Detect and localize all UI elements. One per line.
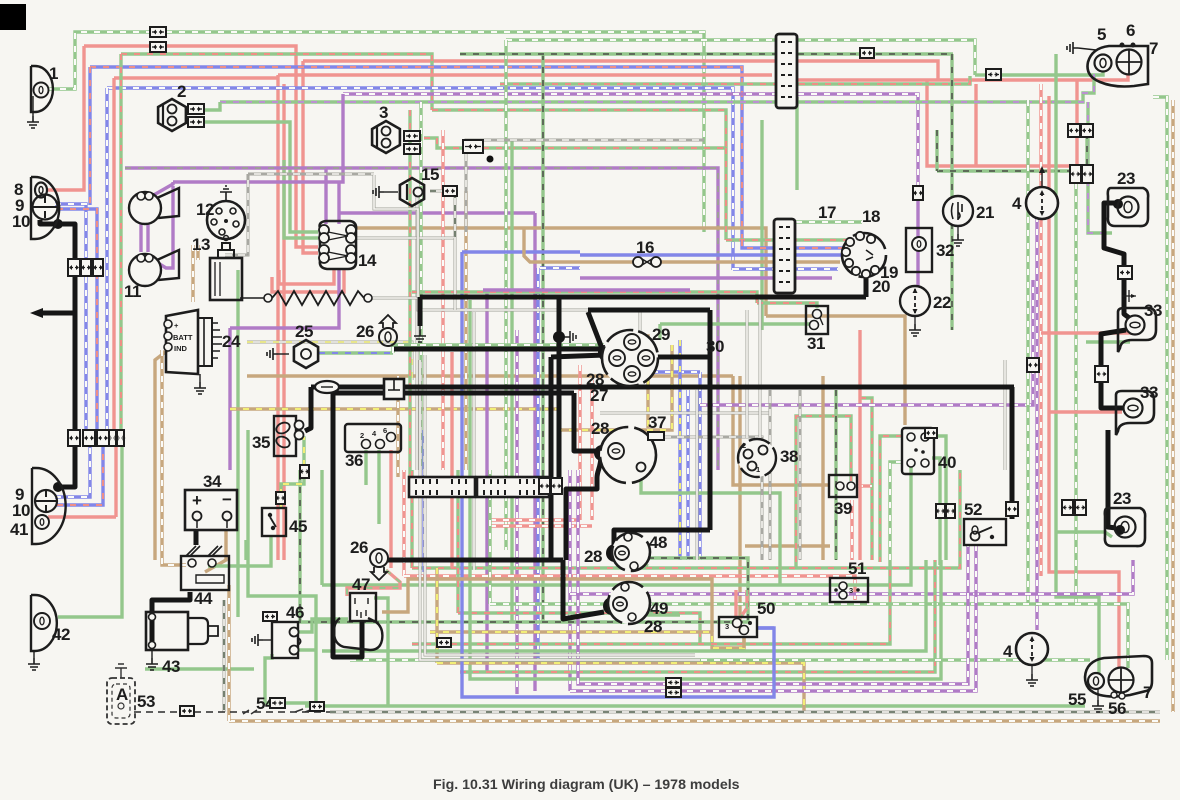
connector black left lamp bbox=[68, 259, 80, 276]
svg-text:29: 29 bbox=[652, 325, 670, 344]
wire green y324 31 bbox=[660, 322, 811, 325]
connector blue left a bbox=[81, 259, 91, 276]
svg-text:11: 11 bbox=[124, 282, 141, 301]
svg-text:30: 30 bbox=[706, 337, 724, 356]
switch 47 bbox=[350, 593, 376, 621]
flasher unit 3 bbox=[372, 121, 400, 153]
wire salmon v860 bbox=[858, 330, 861, 560]
wire green/white far right bbox=[1153, 97, 1167, 660]
wire green/yellow 35 drop bbox=[281, 438, 304, 508]
wire blue/white v688 bbox=[686, 390, 689, 560]
bulb 26b bbox=[370, 549, 388, 567]
wire purple v487 bbox=[485, 292, 488, 672]
svg-text:56: 56 bbox=[1108, 699, 1126, 718]
wire white console frame b bbox=[466, 140, 704, 232]
wire green 39 riser bbox=[796, 416, 851, 568]
wire tan y262 fuse2 bbox=[660, 260, 840, 263]
black wire H387 bbox=[311, 385, 1014, 390]
connector green/dark 862 bbox=[860, 48, 874, 58]
wire green/white y604b bbox=[490, 604, 1128, 668]
wire white v1005 frame bbox=[1004, 360, 1007, 470]
wire red y84 link bbox=[927, 80, 1077, 166]
battery 34 bbox=[185, 490, 237, 530]
wire green/red y644 bbox=[412, 568, 890, 644]
junction node J4 bbox=[594, 445, 610, 461]
black wire 23a lamp bbox=[1104, 203, 1132, 320]
svg-text:45: 45 bbox=[289, 517, 307, 536]
svg-text:39: 39 bbox=[834, 499, 852, 518]
wire purple/gray y168 bbox=[125, 168, 718, 278]
black wire 23b chain bbox=[1108, 430, 1116, 528]
wire tan 39 wire bbox=[745, 544, 830, 547]
wire green/red y568b bbox=[412, 470, 960, 568]
wire white zigzag right bbox=[769, 390, 772, 560]
connector black 23 chain c bbox=[1062, 500, 1073, 515]
wire green/red flasher3 bbox=[424, 138, 483, 148]
wire white resistor lead bbox=[364, 298, 540, 310]
wire red/green 47 feed bbox=[347, 570, 400, 596]
wire purple y278 bbox=[580, 276, 832, 279]
svg-text:33: 33 bbox=[1140, 383, 1158, 402]
wire green 23b bbox=[1056, 532, 1112, 537]
wire purple y213 bbox=[339, 211, 535, 214]
switch 45 bbox=[262, 508, 286, 536]
connector black oval bbox=[315, 381, 339, 393]
wire red/white 39b bbox=[857, 484, 872, 487]
connector pair 1071 bbox=[1070, 165, 1081, 183]
wire red y80 left bbox=[797, 78, 927, 81]
black wire V547 bbox=[549, 357, 554, 560]
wire green/red y148 bus bbox=[483, 146, 726, 149]
sender 4b bbox=[1016, 633, 1048, 665]
wire green flasher2 wire2 bbox=[204, 122, 290, 160]
svg-text:2: 2 bbox=[360, 431, 364, 440]
svg-text:28: 28 bbox=[584, 547, 602, 566]
wire tan v823 bbox=[821, 376, 824, 560]
wire green/dark y622 bbox=[300, 470, 748, 622]
wire white y413 bbox=[600, 412, 770, 415]
wire purple/white y691 bbox=[570, 545, 976, 691]
wire tan/yellow v430 bbox=[435, 568, 438, 663]
wire blue/white lamp910 a bbox=[55, 446, 90, 497]
svg-text:14: 14 bbox=[358, 251, 377, 270]
svg-text:4: 4 bbox=[1012, 194, 1022, 213]
wire tan 38 bbox=[733, 376, 829, 485]
svg-text:48: 48 bbox=[649, 533, 667, 552]
black wire 559 drop bbox=[557, 297, 562, 478]
connector purple/white 1033 bbox=[1027, 358, 1039, 372]
svg-text:42: 42 bbox=[52, 625, 70, 644]
wire white loop distributor bbox=[225, 174, 248, 255]
svg-text:31: 31 bbox=[807, 334, 825, 353]
svg-text:18: 18 bbox=[862, 207, 880, 226]
wire red top bus y61 bbox=[303, 61, 938, 80]
wire green/white 975 branch bbox=[506, 40, 975, 75]
wire green/white cluster bbox=[420, 343, 604, 346]
svg-text:−: − bbox=[222, 490, 232, 509]
wire white 14 lead2 bbox=[454, 238, 457, 310]
wire green v238 bbox=[236, 270, 239, 617]
wire blue y252 bbox=[462, 250, 580, 253]
wire purple y213 switch bbox=[324, 168, 327, 224]
connector 15 white bbox=[443, 186, 457, 196]
svg-text:50: 50 bbox=[757, 599, 775, 618]
svg-text:26: 26 bbox=[350, 538, 368, 557]
wire green/red v725 bbox=[724, 148, 727, 240]
black wire 869 stub bbox=[864, 276, 869, 297]
svg-text:44: 44 bbox=[194, 589, 213, 608]
wire white 15 lead bbox=[430, 191, 455, 238]
svg-text:27: 27 bbox=[590, 386, 608, 405]
wire purple/white y594b bbox=[570, 560, 1133, 594]
wire red/white 39 bbox=[850, 500, 853, 560]
wire red/white v443 bbox=[441, 130, 444, 470]
wire tan/yellow y632b bbox=[430, 632, 744, 648]
wire green/white 25 up bbox=[393, 345, 420, 353]
connector green top bbox=[150, 27, 166, 37]
connector blue left b bbox=[93, 259, 103, 276]
wire green 46 bottom bbox=[298, 648, 316, 651]
wire blue v462 bbox=[460, 252, 463, 470]
wire blue/red y248 bbox=[742, 240, 845, 248]
black wire battery neg bbox=[194, 530, 199, 545]
connector pair 40 greens bbox=[936, 504, 945, 518]
speedometer 37 bbox=[600, 427, 656, 483]
wire blue v424 bbox=[422, 430, 425, 572]
wire green/red y568 bbox=[410, 470, 413, 568]
wire red/white y520 bbox=[490, 518, 580, 521]
connector green y706 bbox=[310, 702, 324, 711]
wire purple v535 bbox=[533, 213, 536, 691]
wire white v224 bbox=[223, 600, 226, 712]
svg-text:6: 6 bbox=[1126, 21, 1135, 40]
instrument 29/30 voltage stabiliser bbox=[602, 330, 658, 386]
wire tan coil v198 bbox=[196, 245, 199, 260]
svg-text:24: 24 bbox=[222, 332, 241, 351]
svg-text:47: 47 bbox=[352, 575, 370, 594]
wire white 38 leads bbox=[759, 300, 762, 437]
wire blue/white cluster bbox=[648, 370, 652, 373]
wire green y585 bbox=[320, 470, 323, 585]
wire green/red y290 bbox=[412, 292, 757, 303]
ground near 26a bbox=[419, 326, 421, 330]
wire purple y94 bus bbox=[343, 94, 918, 188]
wire tan v398 bbox=[396, 376, 399, 477]
wire green/red y613 bbox=[456, 470, 459, 613]
wire tan coil v193 bbox=[191, 245, 194, 302]
wire green/white v1033 bbox=[1026, 100, 1029, 604]
black wire 33a loop bbox=[1101, 330, 1126, 408]
wire tan 50 out bbox=[742, 636, 745, 648]
wire green y679 bbox=[470, 300, 941, 679]
black wire lamp8910 down bbox=[40, 220, 75, 487]
switch 36 bbox=[345, 424, 401, 452]
wire white y174 bbox=[248, 173, 374, 176]
lamp 9/10/41 bbox=[32, 468, 66, 544]
wire green/red left v121 bbox=[119, 54, 122, 446]
wire red v278 bbox=[276, 75, 279, 560]
wire green y324 31b bbox=[658, 324, 661, 340]
wire green y651 bbox=[322, 560, 926, 651]
wire white big frame2 bbox=[425, 355, 695, 655]
switch 25 bbox=[294, 340, 318, 368]
svg-text:3: 3 bbox=[379, 103, 388, 122]
connector block 17/18 bbox=[774, 219, 795, 293]
wire white v747 bbox=[746, 310, 749, 438]
wire purple/white v1033b bbox=[1031, 280, 1034, 358]
wire green/white v1076 bbox=[1074, 183, 1077, 604]
wire purple v918 bbox=[916, 196, 919, 286]
wire green headlamp 5 feed2 bbox=[1000, 62, 1103, 75]
switch 15 bbox=[400, 178, 424, 206]
wire green flasher2 wire bbox=[204, 102, 220, 110]
wire red 14 feed2 bbox=[303, 61, 318, 253]
wire red top bus y46c bbox=[166, 46, 318, 247]
black wire arrow left bbox=[40, 311, 75, 316]
junction node J8 bbox=[53, 482, 63, 492]
wire green/red y672 bbox=[460, 560, 935, 672]
wire purple horn drop2 bbox=[146, 198, 149, 252]
distributor 12 bbox=[207, 201, 245, 239]
junction node J9 bbox=[1113, 199, 1123, 209]
black wire H309 bbox=[588, 308, 710, 313]
wire white v417 bbox=[416, 191, 419, 470]
svg-text:55: 55 bbox=[1068, 690, 1086, 709]
svg-text:13: 13 bbox=[192, 235, 210, 254]
wire green lamp42 v122 bbox=[58, 446, 122, 617]
wire tan v740 bbox=[738, 376, 741, 632]
wire red y75 bus bbox=[114, 76, 278, 79]
black corner square bbox=[0, 4, 26, 30]
svg-text:35: 35 bbox=[252, 433, 270, 452]
wire green/red y240 bbox=[726, 238, 846, 241]
wire green/red y110 bus bbox=[432, 110, 726, 148]
black wire A diag bbox=[588, 312, 603, 351]
svg-text:5: 5 bbox=[1097, 25, 1106, 44]
svg-text:23: 23 bbox=[1117, 169, 1135, 188]
svg-text:+: + bbox=[192, 491, 202, 510]
wire green/red y54 bus bbox=[121, 54, 432, 110]
black wire V710 bbox=[708, 310, 713, 530]
wire tan/yellow cluster bbox=[641, 336, 648, 428]
wire purple y290 bbox=[483, 288, 690, 291]
lamp 8/9/10 headlamp bbox=[31, 177, 59, 239]
svg-text:40: 40 bbox=[938, 453, 956, 472]
wire blue/white left v86 bbox=[55, 204, 86, 446]
wire red top bus y46b bbox=[84, 44, 150, 47]
svg-text:38: 38 bbox=[780, 447, 798, 466]
black wire V1014 bbox=[1010, 387, 1015, 519]
svg-text:28: 28 bbox=[591, 419, 609, 438]
svg-text:17: 17 bbox=[818, 203, 836, 222]
connector red top bbox=[150, 42, 166, 52]
wire red 14 out b bbox=[272, 269, 344, 292]
wire red 50 b bbox=[740, 590, 747, 618]
wire red y75 long bbox=[278, 73, 772, 76]
wire green/purple lamp drop bbox=[1088, 102, 1112, 233]
alternator 24 bbox=[166, 310, 198, 374]
svg-text:10: 10 bbox=[12, 501, 30, 520]
svg-text:53: 53 bbox=[137, 692, 155, 711]
wire white v800 bbox=[799, 390, 802, 560]
svg-text:32: 32 bbox=[936, 241, 954, 260]
wire blue/red y67 bus bbox=[90, 67, 742, 240]
wire green/red y396 bbox=[860, 398, 872, 560]
black wire V574 bbox=[574, 393, 599, 451]
black wire term link bbox=[650, 355, 710, 360]
wire white 14 lead bbox=[355, 237, 455, 240]
wire red v284 bbox=[282, 84, 285, 560]
wire green/white v421 bbox=[419, 102, 422, 470]
gauge 22 bbox=[900, 286, 930, 316]
svg-text:10: 10 bbox=[12, 212, 30, 231]
wire red 50 a bbox=[734, 590, 737, 618]
black wire V563 bbox=[563, 560, 604, 619]
switch 52 bbox=[964, 519, 1006, 545]
wire green/white top bus right bbox=[166, 32, 704, 232]
wire green v762 bbox=[760, 120, 763, 330]
switch 46 bbox=[272, 622, 298, 658]
lamp 48 bbox=[612, 533, 650, 571]
wire blue/red lamp910 b bbox=[57, 446, 103, 505]
wire green v836 bbox=[834, 390, 837, 560]
wire purple horn2 link bbox=[150, 186, 173, 268]
svg-text:3: 3 bbox=[725, 622, 729, 631]
svg-text:20: 20 bbox=[872, 277, 890, 296]
connector black box 393 bbox=[384, 379, 404, 399]
headlamp 5/6/7 bbox=[1088, 46, 1149, 87]
wire green y120 left bbox=[290, 160, 318, 232]
wire green 49 exit bbox=[630, 610, 680, 615]
wire tan y316 bus bbox=[766, 316, 905, 425]
svg-text:6: 6 bbox=[383, 426, 387, 435]
svg-text:26: 26 bbox=[356, 322, 374, 341]
svg-text:51: 51 bbox=[848, 559, 866, 578]
svg-text:36: 36 bbox=[345, 451, 363, 470]
wire purple y182 bbox=[173, 94, 343, 182]
wire tan y262 fuse bbox=[524, 228, 634, 262]
wire tan/yellow cluster2 bbox=[560, 345, 672, 430]
black wire 48 term bbox=[615, 551, 624, 556]
svg-text:2: 2 bbox=[177, 82, 186, 101]
sender 4a bbox=[1026, 187, 1058, 219]
wire tan 47 bbox=[382, 579, 712, 632]
wire green/red y303 bbox=[757, 303, 817, 308]
wire tan/yellow y409 bbox=[230, 407, 560, 410]
svg-text:41: 41 bbox=[10, 520, 28, 539]
wire white/yellow y342 bbox=[247, 342, 412, 380]
wire red left v114b bbox=[114, 446, 117, 517]
wire purple/white y405 bbox=[700, 372, 1033, 405]
gauge 21 bbox=[943, 196, 973, 226]
wire tan 24 down2 bbox=[162, 350, 186, 565]
wire red v976 bbox=[974, 84, 977, 166]
wire green/dark v952 bbox=[950, 54, 953, 330]
wire tan/yellow y663 bbox=[437, 663, 804, 713]
wire blue y697 bbox=[462, 470, 774, 697]
flasher unit 2 bbox=[158, 99, 186, 131]
svg-text:7: 7 bbox=[1149, 39, 1158, 58]
wire red/white cluster v580 bbox=[578, 365, 581, 520]
starter 43 bbox=[146, 612, 188, 650]
switch 14 bbox=[320, 221, 357, 269]
wire purple horn link bbox=[152, 182, 173, 196]
black wire 43 interior bbox=[150, 612, 155, 648]
wire red v1049 bbox=[1049, 96, 1119, 669]
svg-text:23: 23 bbox=[1113, 489, 1131, 508]
horn 11a bbox=[129, 192, 161, 224]
svg-text:15: 15 bbox=[421, 165, 439, 184]
connector dash54 bbox=[180, 706, 194, 716]
connector pair 1068 bbox=[1068, 124, 1080, 137]
coil 13 bbox=[210, 258, 242, 300]
sender 38 bbox=[738, 439, 776, 477]
wire green/white y604 bbox=[488, 470, 491, 604]
connector 46 inline bbox=[270, 698, 285, 708]
wire green/dark y171 bbox=[937, 136, 1087, 171]
junction node J10 bbox=[1115, 525, 1125, 535]
junction node J2 bbox=[553, 331, 565, 343]
wire red 33b bbox=[1049, 410, 1122, 413]
svg-text:4: 4 bbox=[1003, 642, 1013, 661]
wire green/dark v547 bbox=[541, 54, 544, 622]
wire green 14 feed2 bbox=[284, 160, 318, 238]
wire red/white y526 bbox=[490, 524, 592, 527]
wire red 14 out a bbox=[279, 269, 334, 284]
wire green 40 b bbox=[932, 436, 946, 560]
svg-text:21: 21 bbox=[976, 203, 994, 222]
wire green/white y222 bbox=[783, 220, 862, 223]
wire blue/white v700 bbox=[698, 372, 701, 560]
wire tan/white v229 bbox=[227, 585, 230, 721]
radio 53 bbox=[107, 678, 135, 724]
connector 45 inline bbox=[276, 492, 285, 504]
wire green/red v410 bbox=[408, 110, 411, 476]
wire red lamp41 bbox=[48, 515, 116, 518]
black wire H560 bbox=[387, 558, 563, 563]
connector block upper bbox=[776, 34, 797, 108]
wire red/white y576 bbox=[402, 470, 405, 576]
wire green y706 bbox=[305, 704, 1085, 707]
svg-text:22: 22 bbox=[933, 293, 951, 312]
black dot 490 bbox=[487, 156, 494, 163]
wire green 33a link bbox=[1086, 340, 1130, 343]
wire tan battery bbox=[205, 530, 226, 572]
junction node J6 bbox=[603, 597, 621, 615]
svg-text:52: 52 bbox=[964, 500, 982, 519]
wire green 47 right bbox=[374, 598, 388, 706]
wire green/dark v547b bbox=[460, 52, 953, 55]
svg-text:7: 7 bbox=[1143, 683, 1152, 702]
wire red top bus y46 bbox=[46, 46, 84, 190]
wire green/white v506 bbox=[504, 40, 507, 550]
wire green v248 bbox=[248, 430, 316, 703]
switch 31 bbox=[806, 306, 828, 334]
relay 50 bbox=[719, 617, 757, 637]
junction node J1 bbox=[598, 345, 612, 359]
black wire V333 bbox=[333, 393, 362, 657]
wire blue/white y268 bbox=[540, 266, 580, 269]
wire white speedo frame bbox=[658, 437, 762, 560]
wire blue 50 out bbox=[757, 626, 774, 629]
connector purple pair a bbox=[666, 678, 681, 687]
svg-text:12: 12 bbox=[196, 200, 214, 219]
wire green v512 bbox=[510, 140, 513, 622]
wire green speedo bbox=[641, 470, 780, 585]
svg-text:+: + bbox=[174, 321, 179, 330]
svg-text:IND: IND bbox=[174, 344, 188, 353]
connector green 5 feed bbox=[986, 69, 1001, 80]
